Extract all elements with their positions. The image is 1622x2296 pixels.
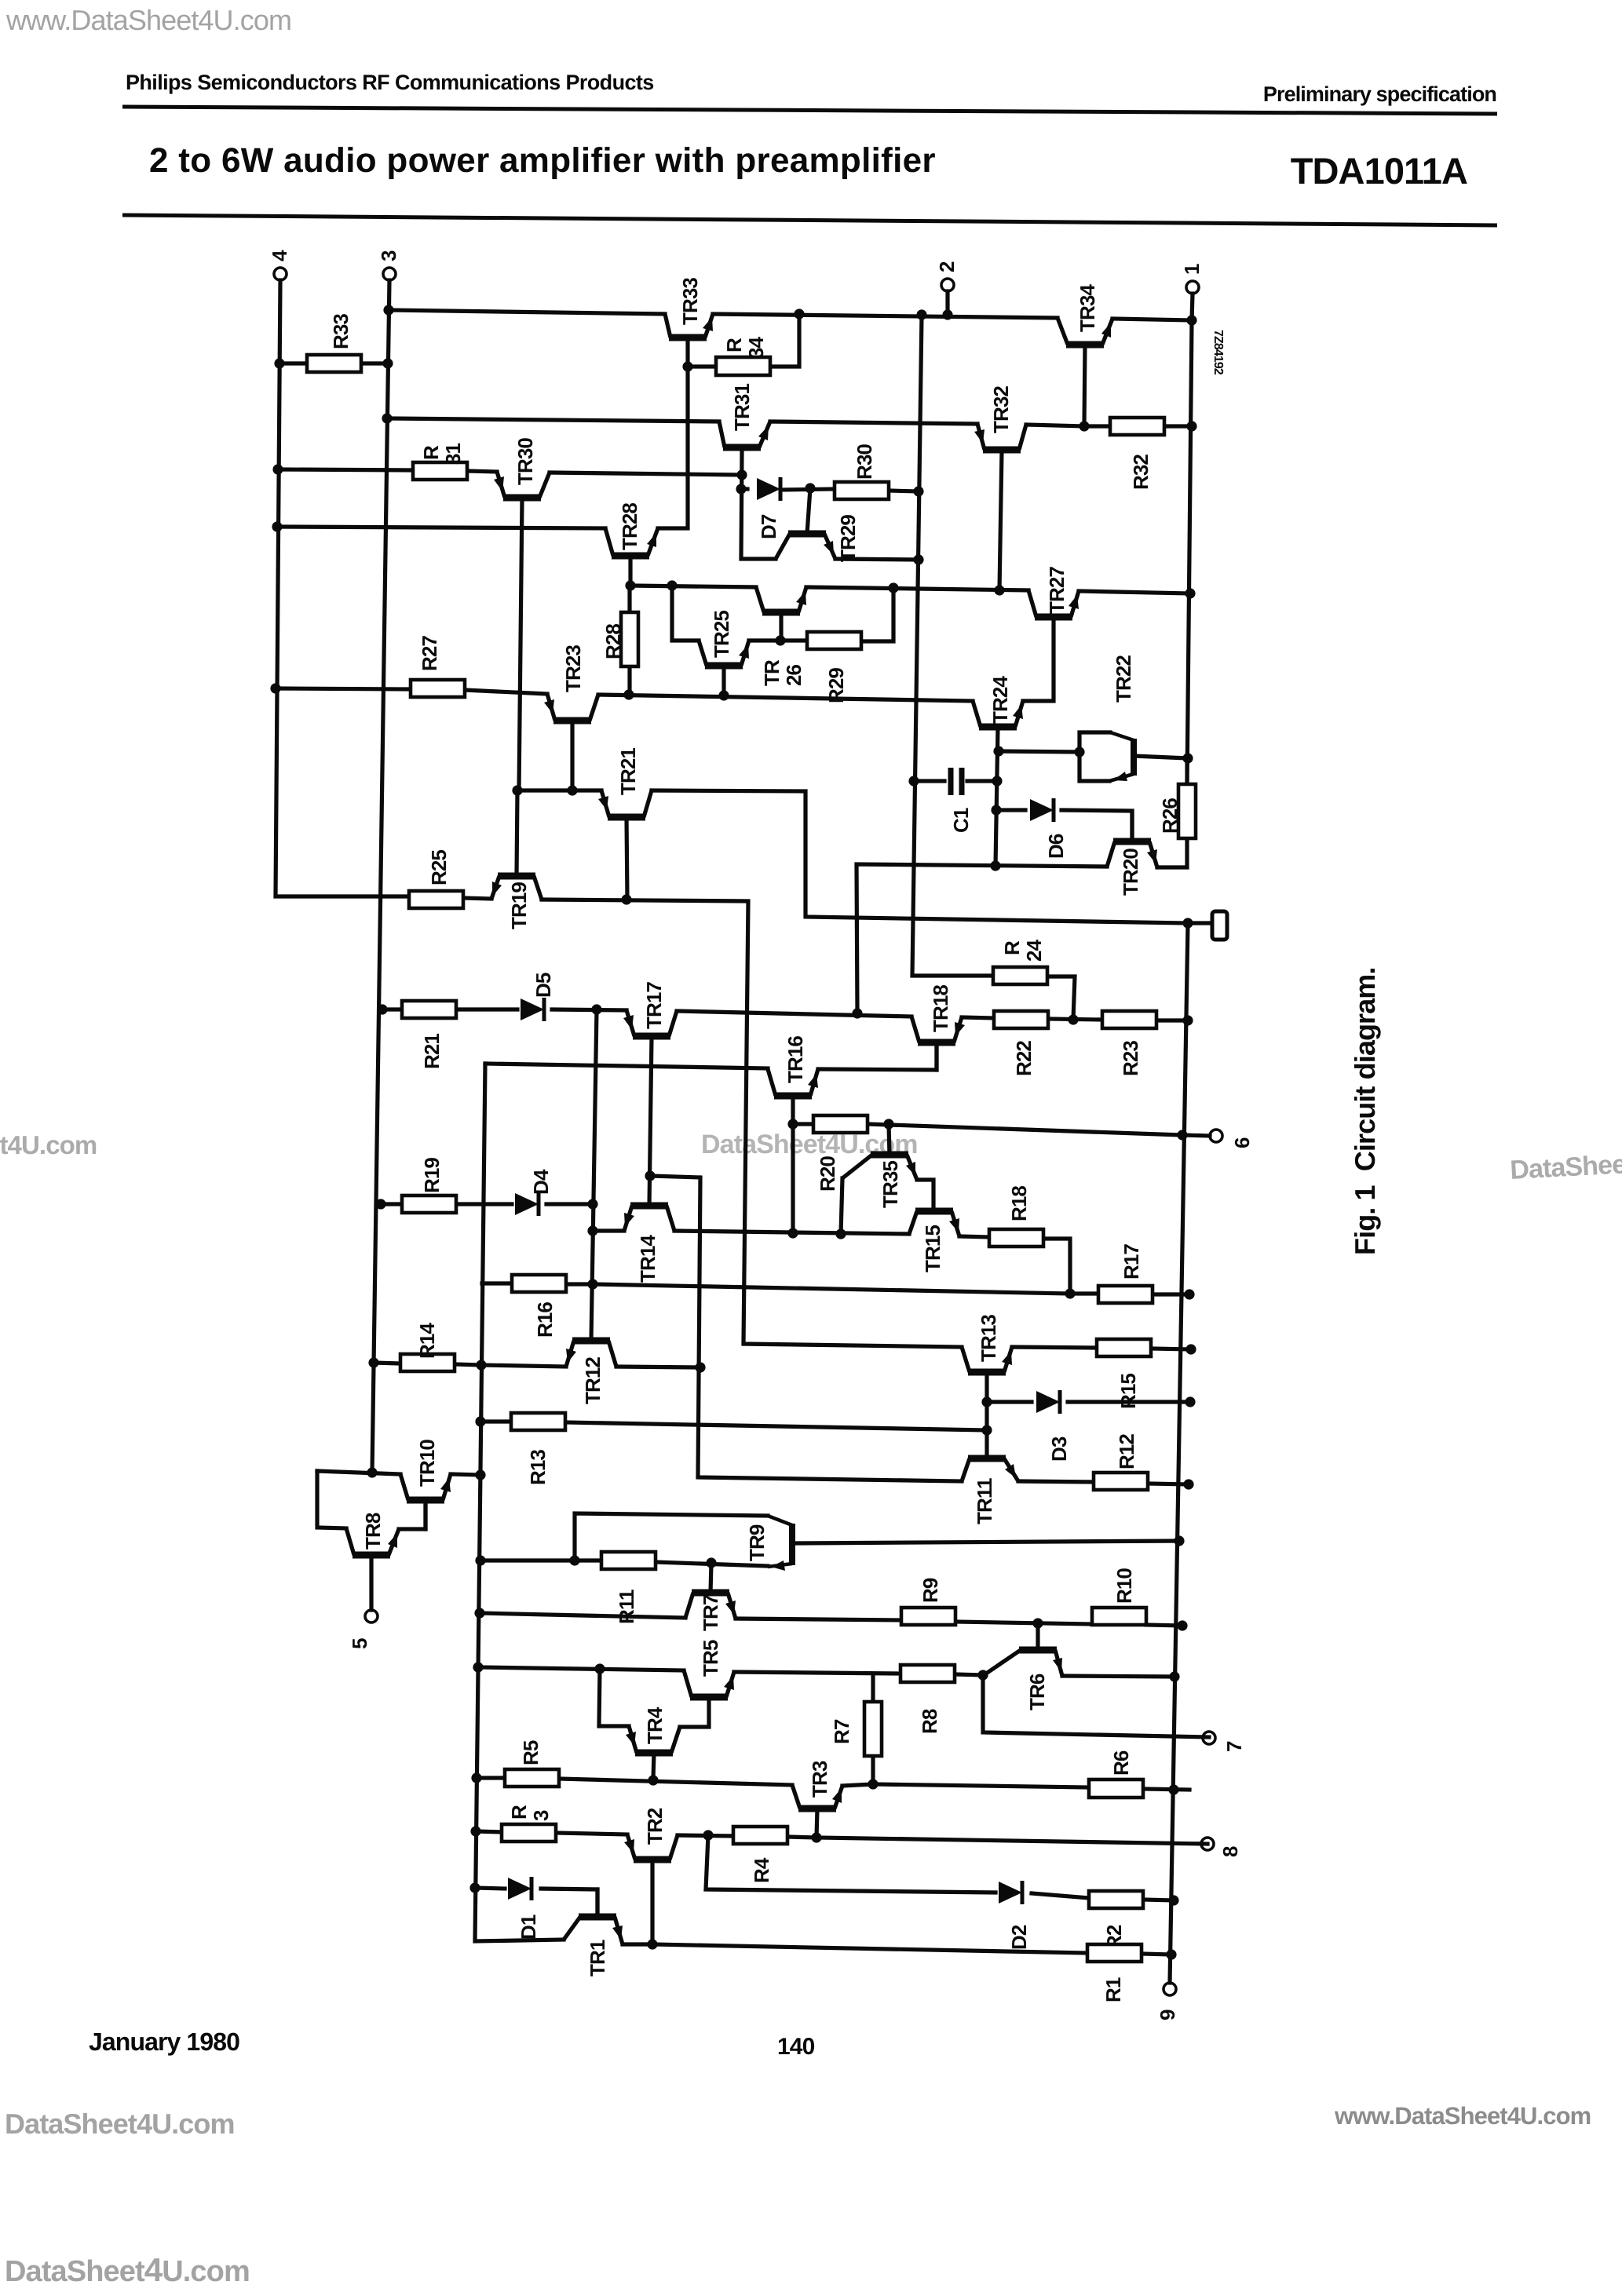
transistor TR27 bbox=[1035, 614, 1072, 621]
svg-text:R27: R27 bbox=[418, 636, 441, 671]
wire TR34 to rail bbox=[1112, 319, 1192, 320]
wire R6 right lead bbox=[1144, 1789, 1189, 1790]
capacitor C1 bbox=[948, 768, 954, 795]
wire pin3 rail bbox=[372, 280, 389, 1473]
wire D7 cathode to R30 bbox=[782, 489, 835, 490]
junction bbox=[1185, 1396, 1195, 1407]
transistor TR9 bbox=[789, 1524, 795, 1565]
resistor R22 bbox=[994, 1011, 1048, 1028]
resistor R3 bbox=[502, 1824, 556, 1842]
pin 6 bbox=[1210, 1130, 1222, 1142]
transistor TR10 bbox=[407, 1497, 444, 1504]
wire bus TR28 base to TR26 bbox=[630, 586, 756, 587]
wire TR27 emitter to rail bbox=[1079, 591, 1190, 593]
wire TR17 to TR18 row bbox=[677, 1011, 911, 1017]
wire C1 right lead bbox=[967, 779, 997, 783]
junction bbox=[667, 580, 677, 590]
wire TR30 collector to TR31 base bbox=[550, 473, 742, 475]
wire right rail upper (pin1 to R26) bbox=[1187, 320, 1192, 784]
junction bbox=[913, 486, 923, 496]
junction bbox=[367, 1467, 377, 1477]
svg-text:R26: R26 bbox=[1158, 798, 1182, 834]
wire TR18 emitter row up and to TR20 bbox=[857, 864, 1107, 1013]
junction bbox=[916, 309, 926, 319]
svg-text:8: 8 bbox=[1218, 1846, 1242, 1857]
svg-text:R6: R6 bbox=[1109, 1750, 1133, 1776]
svg-text:3: 3 bbox=[529, 1810, 553, 1821]
resistor R1 bbox=[1087, 1944, 1142, 1962]
resistor R33 bbox=[307, 355, 361, 372]
resistor R2 bbox=[1089, 1891, 1143, 1908]
wire R7 bottom lead bbox=[871, 1756, 875, 1784]
wire D1 cathode to TR1 base bbox=[541, 1889, 597, 1914]
transistor TR12 bbox=[572, 1338, 610, 1345]
junction bbox=[475, 1555, 485, 1565]
transistor TR21 bbox=[608, 814, 645, 821]
wire rail B to R14 bbox=[374, 1363, 400, 1363]
resistor R6 bbox=[1089, 1779, 1143, 1798]
wire TR19 collector down to TR13 bbox=[542, 900, 962, 1347]
svg-text:2 to 6W audio power amplifier: 2 to 6W audio power amplifier with pream… bbox=[149, 141, 936, 180]
junction bbox=[1186, 421, 1196, 431]
svg-text:Preliminary specification: Preliminary specification bbox=[1263, 82, 1496, 106]
wire TR9 base to rail bbox=[795, 1541, 1179, 1543]
junction bbox=[736, 469, 747, 480]
svg-text:DataSheet4U.com: DataSheet4U.com bbox=[5, 2108, 235, 2140]
transistor TR23 bbox=[553, 717, 591, 725]
svg-text:TR28: TR28 bbox=[618, 503, 641, 550]
junction bbox=[647, 1939, 657, 1949]
pin 8 bbox=[1201, 1838, 1214, 1850]
resistor R18 bbox=[989, 1229, 1043, 1247]
junction bbox=[623, 689, 634, 699]
wire R13 to TR11 base bbox=[565, 1422, 987, 1430]
resistor R27 bbox=[411, 680, 465, 697]
header rule 1 bbox=[122, 107, 1497, 114]
svg-text:TR33: TR33 bbox=[678, 278, 702, 325]
wire R12 right lead bbox=[1148, 1484, 1189, 1484]
diode D6 bbox=[1030, 799, 1054, 821]
wire R2 right lead bbox=[1143, 1900, 1174, 1900]
wire bus to TR31 left bbox=[387, 418, 719, 422]
wire TR16 collector to TR18 base bbox=[818, 1042, 937, 1070]
junction bbox=[1184, 1289, 1194, 1299]
transistor TR18 bbox=[918, 1039, 955, 1046]
resistor R9 bbox=[901, 1608, 955, 1625]
wire pin3 bus to TR33 bbox=[389, 310, 665, 314]
resistor R28 bbox=[621, 612, 638, 666]
transistor TR29 bbox=[788, 531, 826, 538]
wire D3 anode lead bbox=[987, 1400, 1032, 1404]
svg-text:TR24: TR24 bbox=[988, 676, 1012, 724]
wire TR27 base to TR24 emitter bbox=[1023, 617, 1054, 701]
junction bbox=[567, 785, 577, 795]
wire TR16 base vertical bbox=[791, 1096, 795, 1233]
resistor R12 bbox=[1094, 1473, 1148, 1490]
resistor R25 bbox=[409, 891, 463, 908]
junction bbox=[794, 308, 804, 319]
wire R33 right lead bbox=[361, 361, 388, 365]
wire R30 right lead bbox=[889, 491, 919, 491]
resistor R30 bbox=[835, 482, 889, 499]
resistor R10 bbox=[1092, 1608, 1146, 1625]
svg-text:TR17: TR17 bbox=[642, 982, 666, 1029]
svg-text:R: R bbox=[507, 1805, 531, 1820]
wire TR3 emitter to R7 bbox=[842, 1784, 873, 1786]
transistor TR13 bbox=[968, 1369, 1006, 1376]
wire R25 to TR19 bbox=[463, 898, 491, 899]
junction bbox=[706, 1557, 716, 1568]
wire R5 to TR3 bbox=[559, 1779, 792, 1785]
wire TR18 to R22 bbox=[962, 1017, 994, 1018]
junction bbox=[648, 1775, 658, 1785]
junction bbox=[993, 746, 1003, 756]
junction bbox=[512, 785, 522, 795]
svg-text:R: R bbox=[722, 338, 746, 352]
svg-text:R32: R32 bbox=[1129, 454, 1153, 490]
svg-text:R4: R4 bbox=[750, 1857, 773, 1883]
junction bbox=[1185, 588, 1195, 598]
wire pin2 lead bbox=[945, 291, 949, 315]
wire to TR12 emitter bbox=[481, 1365, 566, 1367]
diode D2 bbox=[999, 1882, 1022, 1904]
junction bbox=[594, 1663, 605, 1674]
wire TR21 base lead bbox=[627, 817, 627, 900]
svg-text:TR22: TR22 bbox=[1112, 655, 1135, 703]
wire down to D2 bbox=[706, 1835, 995, 1893]
svg-text:TR23: TR23 bbox=[561, 645, 585, 692]
diode D4 bbox=[515, 1193, 539, 1215]
wire R27 to TR23 bbox=[465, 690, 547, 694]
wire TR8 emitter to TR10 base bbox=[399, 1503, 426, 1529]
wire R29 right lead up to bus bbox=[861, 588, 893, 641]
wire TR6 base lead bbox=[1036, 1623, 1039, 1650]
svg-text:D7: D7 bbox=[757, 514, 780, 539]
wire TR15 to R18 bbox=[959, 1236, 989, 1237]
svg-text:TR2: TR2 bbox=[643, 1808, 667, 1845]
resistor R26 bbox=[1178, 784, 1196, 838]
pin 2 bbox=[941, 279, 954, 291]
wire TR6 emitter to rail bbox=[1062, 1676, 1174, 1677]
resistor R16 bbox=[512, 1275, 566, 1292]
svg-text:TR18: TR18 bbox=[929, 985, 952, 1032]
svg-text:7Z84192: 7Z84192 bbox=[1211, 330, 1225, 375]
junction bbox=[1169, 1671, 1179, 1681]
wire pin4 rail to R25 row bbox=[276, 280, 409, 896]
svg-text:D2: D2 bbox=[1007, 1925, 1031, 1950]
wire TR20 emitter hook to R26 bbox=[1157, 838, 1187, 867]
svg-text:31: 31 bbox=[441, 443, 465, 465]
wire rail B to R19 bbox=[381, 1202, 402, 1206]
wire vertical D5 node down to TR12 base bbox=[591, 1009, 597, 1341]
junction bbox=[375, 1199, 385, 1209]
wire bus D to R11 bbox=[480, 1558, 601, 1562]
wire jog down to TR11 collector bbox=[650, 1176, 962, 1481]
svg-text:TR32: TR32 bbox=[989, 386, 1013, 433]
junction bbox=[382, 358, 393, 368]
transistor TR33 bbox=[669, 334, 707, 341]
svg-text:R: R bbox=[1000, 940, 1024, 955]
svg-text:TR13: TR13 bbox=[977, 1315, 1000, 1362]
svg-text:TR3: TR3 bbox=[808, 1761, 831, 1798]
wire TR5 collector to R8 bbox=[734, 1672, 901, 1674]
wire TR31 base down to TR29 emitter bbox=[741, 451, 776, 559]
junction bbox=[811, 1832, 821, 1842]
resistor R4 bbox=[733, 1827, 787, 1844]
transistor TR16 bbox=[774, 1093, 812, 1100]
wire R32 left lead bbox=[1084, 424, 1110, 428]
wire R9 to R10 bbox=[955, 1622, 1092, 1624]
wire R34 left lead bbox=[688, 364, 716, 368]
junction bbox=[977, 1670, 988, 1680]
wire TR8 base to pin5 bbox=[369, 1558, 373, 1610]
svg-text:www.DataSheet4U.com: www.DataSheet4U.com bbox=[5, 4, 291, 36]
junction bbox=[270, 683, 280, 693]
pin 9 bbox=[1164, 1983, 1176, 1995]
junction bbox=[992, 776, 1002, 786]
wire R11 to TR9 emitter bbox=[656, 1562, 768, 1566]
wire R24 right lead down bbox=[1047, 976, 1075, 1020]
wire TR1 emitter bbox=[623, 1942, 652, 1946]
junction bbox=[1166, 1949, 1176, 1959]
svg-text:TR21: TR21 bbox=[616, 748, 640, 795]
wire R28 bottom lead bbox=[627, 666, 631, 695]
wire D6 anode lead bbox=[996, 808, 1025, 812]
svg-text:TR35: TR35 bbox=[879, 1161, 902, 1208]
svg-text:TR27: TR27 bbox=[1045, 567, 1069, 614]
junction bbox=[682, 361, 692, 371]
svg-text:2: 2 bbox=[935, 261, 959, 272]
junction bbox=[1182, 918, 1193, 928]
svg-text:140: 140 bbox=[777, 2034, 815, 2060]
transistor TR6 bbox=[1019, 1647, 1057, 1654]
substrate tab bbox=[1212, 911, 1227, 940]
pin 5 bbox=[365, 1610, 378, 1623]
svg-text:R30: R30 bbox=[853, 444, 876, 480]
junction bbox=[775, 635, 785, 645]
junction bbox=[1182, 1015, 1193, 1025]
svg-text:34: 34 bbox=[744, 336, 768, 359]
wire R21 to D5 bbox=[456, 1007, 517, 1011]
wire R23 right lead bbox=[1156, 1018, 1188, 1022]
junction bbox=[368, 1357, 378, 1367]
wire down to TR25 bbox=[672, 586, 699, 641]
svg-text:3: 3 bbox=[377, 250, 400, 261]
resistor R34 bbox=[716, 357, 770, 375]
transistor TR26 bbox=[762, 609, 800, 616]
junction bbox=[942, 309, 952, 319]
wire R22 to R23 bbox=[1048, 1019, 1102, 1020]
junction bbox=[1174, 1535, 1184, 1546]
svg-text:R7: R7 bbox=[830, 1719, 853, 1744]
svg-text:TDA1011A: TDA1011A bbox=[1291, 150, 1467, 192]
junction bbox=[994, 585, 1004, 595]
wire TR1 emitter row to R1 bbox=[652, 1944, 1087, 1953]
wire TR12 collector bbox=[616, 1367, 700, 1367]
resistor R23 bbox=[1102, 1011, 1156, 1028]
junction bbox=[625, 580, 635, 590]
svg-text:1: 1 bbox=[1180, 264, 1204, 275]
wire TR21 collector bus to rail bbox=[652, 790, 1188, 923]
wire R17 right lead bbox=[1153, 1292, 1189, 1296]
junction bbox=[1065, 1288, 1075, 1298]
svg-text:6: 6 bbox=[1230, 1137, 1254, 1148]
wire TR19 base bus bbox=[517, 788, 601, 792]
wire D3 cathode to rail bbox=[1068, 1400, 1190, 1404]
junction bbox=[591, 1004, 601, 1014]
svg-text:R15: R15 bbox=[1116, 1374, 1140, 1409]
wire TR28 base lead bbox=[628, 556, 632, 586]
svg-text:R8: R8 bbox=[918, 1709, 941, 1734]
svg-text:TR15: TR15 bbox=[921, 1225, 944, 1272]
diode D5 bbox=[521, 998, 544, 1020]
diode D7 bbox=[757, 478, 780, 500]
junction bbox=[703, 1830, 713, 1840]
wire TR4 base lead bbox=[653, 1753, 654, 1779]
svg-text:R: R bbox=[419, 445, 443, 460]
junction bbox=[868, 1779, 878, 1789]
wire TR35 base lead bbox=[889, 1124, 890, 1155]
svg-text:TR34: TR34 bbox=[1076, 284, 1099, 332]
junction bbox=[787, 1228, 798, 1238]
svg-text:R9: R9 bbox=[919, 1578, 942, 1603]
pin 4 bbox=[274, 268, 287, 280]
junction bbox=[908, 776, 919, 786]
junction bbox=[695, 1362, 705, 1372]
transistor TR24 bbox=[979, 724, 1017, 731]
wire loop top to TR10 bbox=[317, 1471, 400, 1474]
svg-text:5: 5 bbox=[348, 1638, 371, 1649]
transistor TR3 bbox=[798, 1805, 836, 1812]
wire stub to substrate tab bbox=[1188, 921, 1212, 925]
wire right rail lower bbox=[1170, 923, 1188, 1983]
resistor R19 bbox=[402, 1195, 456, 1213]
wire pin1 lead bbox=[1192, 294, 1193, 320]
svg-text:et4U.com: et4U.com bbox=[0, 1130, 97, 1159]
transistor TR28 bbox=[612, 553, 649, 560]
transistor TR11 bbox=[968, 1455, 1006, 1462]
junction bbox=[1177, 1130, 1187, 1140]
wire R4 row to pin 8 bbox=[816, 1838, 1207, 1844]
wire down to pin 7 bbox=[983, 1675, 1209, 1737]
junction bbox=[1074, 746, 1084, 757]
wire R5 left lead bbox=[477, 1776, 505, 1779]
junction bbox=[1168, 1784, 1178, 1794]
junction bbox=[990, 860, 1000, 871]
transistor TR30 bbox=[503, 495, 541, 502]
wire R3 left lead bbox=[476, 1831, 502, 1832]
junction bbox=[470, 1826, 480, 1836]
svg-text:R10: R10 bbox=[1112, 1568, 1136, 1604]
wire TR10 emitter to bus D bbox=[451, 1474, 480, 1475]
pin 3 bbox=[383, 268, 396, 280]
resistor R8 bbox=[901, 1665, 955, 1682]
wire R14 right lead bbox=[455, 1364, 481, 1365]
diode D3 bbox=[1036, 1391, 1060, 1413]
wire TR32 collector bbox=[1026, 425, 1084, 426]
wire pin6 stub bbox=[1182, 1135, 1210, 1136]
svg-text:TR31: TR31 bbox=[730, 384, 754, 431]
wire R28 top lead bbox=[627, 586, 631, 612]
transistor TR4 bbox=[635, 1750, 673, 1757]
junction bbox=[272, 521, 282, 531]
wire TR17 base to TR14 bbox=[649, 1036, 652, 1206]
wire TR24 base to TR22 loop bbox=[999, 751, 1080, 752]
svg-text:4: 4 bbox=[268, 250, 291, 261]
wire TR14 to TR15 bus bbox=[674, 1231, 909, 1234]
junction bbox=[981, 1425, 992, 1435]
svg-text:R28: R28 bbox=[601, 624, 625, 659]
junction bbox=[787, 1119, 798, 1129]
wire R13 left lead bbox=[480, 1419, 511, 1423]
resistor R24 bbox=[993, 967, 1047, 984]
transistor TR8 bbox=[353, 1552, 390, 1559]
svg-text:R17: R17 bbox=[1120, 1244, 1143, 1279]
svg-text:7: 7 bbox=[1222, 1741, 1246, 1752]
wire rail A to R31 bbox=[278, 469, 413, 470]
svg-text:R20: R20 bbox=[816, 1156, 839, 1192]
resistor R31 bbox=[413, 462, 467, 480]
wire TR22 base to rail bbox=[1134, 756, 1188, 758]
diode D1 bbox=[508, 1878, 532, 1900]
wire TR31 to TR32 bus bbox=[770, 422, 977, 424]
svg-text:R12: R12 bbox=[1115, 1434, 1138, 1469]
svg-text:TR: TR bbox=[760, 659, 784, 686]
wire TR13 base to TR11 bbox=[985, 1372, 988, 1458]
wire TR29 base lead bbox=[807, 488, 810, 534]
junction bbox=[645, 1170, 655, 1181]
svg-text:R33: R33 bbox=[329, 314, 353, 349]
wire TR26 base lead bbox=[779, 612, 783, 640]
transistor TR1 bbox=[579, 1914, 616, 1921]
resistor R20 bbox=[813, 1115, 868, 1133]
wire R33 left lead bbox=[279, 361, 307, 365]
wire TR29 collector to bus E bbox=[835, 559, 919, 560]
svg-text:R14: R14 bbox=[415, 1323, 439, 1359]
svg-text:TR25: TR25 bbox=[710, 611, 733, 658]
wire D4 cathode lead bbox=[546, 1202, 593, 1206]
junction bbox=[888, 582, 898, 593]
wire TR13 emitter to R15 bbox=[1012, 1347, 1097, 1348]
wire bus TR26 to TR27 bbox=[806, 587, 1028, 590]
transistor TR14 bbox=[630, 1203, 668, 1210]
junction bbox=[569, 1555, 579, 1565]
wire D6 cathode to TR20 base bbox=[1061, 810, 1132, 838]
transistor TR35 bbox=[871, 1152, 908, 1159]
wire long row to R17 bbox=[593, 1284, 1070, 1294]
wire to TR14 left bbox=[593, 1228, 624, 1232]
svg-text:D3: D3 bbox=[1047, 1436, 1071, 1462]
junction bbox=[473, 1662, 483, 1672]
wire TR2 collector to R4 bbox=[678, 1835, 733, 1836]
junction bbox=[377, 1004, 387, 1014]
wire TR25 collector to R29 bbox=[749, 638, 807, 642]
wire TR7 base lead bbox=[711, 1563, 711, 1593]
svg-text:D4: D4 bbox=[529, 1169, 553, 1195]
wire TR11 emitter to R12 bbox=[1018, 1481, 1094, 1482]
junction bbox=[1186, 315, 1196, 325]
wire row to R6 bbox=[873, 1784, 1088, 1787]
transistor TR5 bbox=[690, 1694, 728, 1701]
svg-text:TR6: TR6 bbox=[1025, 1674, 1049, 1710]
wire D2 cathode to R2 bbox=[1032, 1893, 1089, 1898]
wire TR25 base lead bbox=[721, 666, 725, 695]
transistor TR34 bbox=[1066, 341, 1104, 349]
junction bbox=[382, 413, 392, 423]
wire R20 left lead bbox=[793, 1122, 813, 1126]
svg-text:R5: R5 bbox=[519, 1740, 542, 1765]
wire bus TR23 to TR24 bbox=[598, 695, 973, 701]
